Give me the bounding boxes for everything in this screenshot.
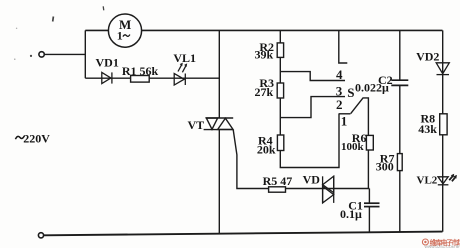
svg-text:WWW.DZSC.COM 电子市场网: WWW.DZSC.COM 电子市场网 xyxy=(425,244,460,248)
